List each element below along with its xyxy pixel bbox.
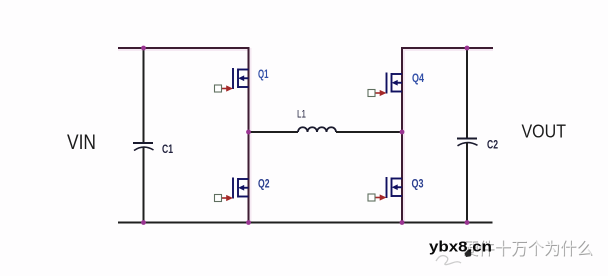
svg-text:VIN: VIN: [67, 130, 96, 154]
junction dot C1 top: [141, 46, 146, 51]
wire C1 branch top: [143, 48, 145, 143]
wire C1 branch bottom: [143, 148, 145, 223]
wire mid net right segment: [336, 131, 402, 133]
transistor Q4: [368, 73, 402, 97]
wire C2 branch top: [466, 48, 468, 139]
svg-text:Q4: Q4: [412, 71, 424, 85]
wire bottom rail: [118, 222, 493, 224]
junction dot left mid node: [246, 130, 251, 135]
svg-text:C1: C1: [162, 142, 173, 156]
inductor L1: [297, 109, 336, 133]
wire top rail right: [401, 47, 493, 49]
capacitor C1: [133, 142, 173, 156]
wire right leg halo: [401, 48, 405, 223]
svg-text:Q2: Q2: [258, 177, 270, 191]
wire right leg (Q4/Q3 branch): [401, 47, 403, 223]
svg-text:Q1: Q1: [258, 67, 269, 81]
capacitor C2: [457, 138, 498, 152]
svg-text:Q3: Q3: [412, 177, 424, 191]
watermark ink blob: [465, 250, 472, 257]
wire C2 branch bottom: [466, 143, 468, 223]
wire top rail left: [118, 47, 250, 49]
watermark chinese text: [462, 239, 594, 259]
svg-text:L1: L1: [297, 109, 306, 121]
svg-text:ybx8.cn: ybx8.cn: [429, 239, 492, 256]
wire left leg halo: [248, 48, 252, 223]
junction dot C2 top: [465, 46, 470, 51]
junction dot Q2 source bottom: [246, 220, 251, 225]
wire top rail right halo: [402, 47, 493, 51]
wire left leg (Q1/Q2 branch): [248, 47, 250, 223]
transistor Q1: [215, 68, 249, 92]
watermark scribble: [436, 256, 461, 265]
wire top rail left halo: [118, 47, 249, 51]
junction dot C2 bottom: [465, 220, 470, 225]
transistor Q2: [215, 178, 249, 202]
svg-text:VOUT: VOUT: [522, 121, 567, 142]
transistor Q3: [368, 177, 402, 201]
wire mid net left segment: [249, 131, 299, 133]
svg-text:C2: C2: [487, 138, 498, 152]
junction dot C1 bottom: [141, 220, 146, 225]
junction dot right mid node: [400, 130, 405, 135]
junction dot Q3 source bottom: [400, 220, 405, 225]
